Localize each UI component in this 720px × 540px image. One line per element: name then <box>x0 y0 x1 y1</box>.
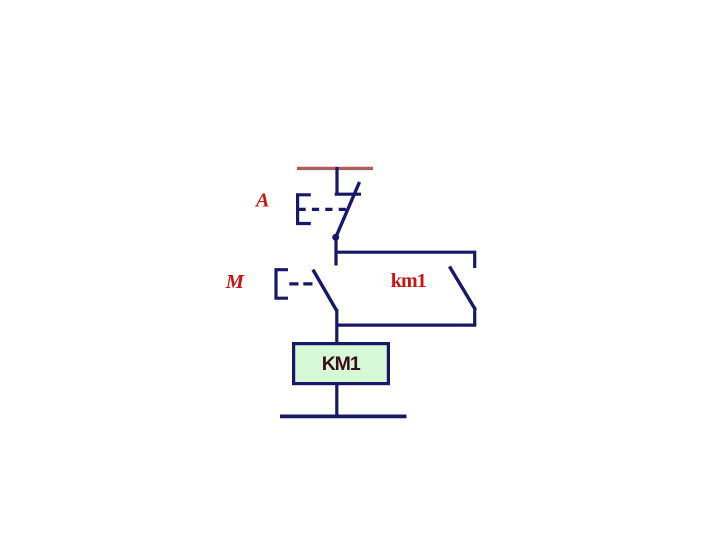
actuator dashed link A <box>299 208 349 211</box>
svg-text:km1: km1 <box>391 270 426 292</box>
NO contact blade km1 (diagonal) <box>450 267 476 311</box>
contact bar of NC button A <box>335 193 361 196</box>
wire M contact to coil <box>335 309 338 344</box>
junction node <box>332 234 339 241</box>
pushbutton actuator bracket M <box>276 270 288 299</box>
supply rail L (top) <box>297 167 373 170</box>
NO contact blade M (diagonal) <box>313 270 337 311</box>
neutral rail N (bottom) <box>280 414 407 418</box>
km1 branch return wire (bottom) <box>336 324 477 327</box>
wire coil to neutral <box>335 384 338 416</box>
wire from rail to stop contact A <box>335 167 338 195</box>
wire junction to M contact terminal <box>334 238 337 266</box>
svg-text:A: A <box>254 190 269 212</box>
km1 lower terminal wire <box>473 310 476 326</box>
svg-text:M: M <box>225 271 245 293</box>
NC contact blade A (diagonal) <box>336 182 360 238</box>
svg-text:KM1: KM1 <box>322 353 361 375</box>
coil KM1 body <box>294 344 389 384</box>
wire to km1 branch (top) <box>335 252 475 268</box>
pushbutton actuator bracket A <box>298 195 311 224</box>
actuator dashed link M <box>289 282 313 285</box>
